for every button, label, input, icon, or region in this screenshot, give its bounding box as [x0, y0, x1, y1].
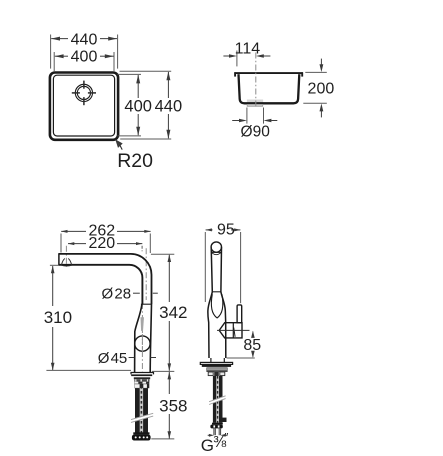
dim ø28: leader dashes	[133, 292, 140, 294]
bowl centerline	[255, 53, 257, 109]
drain crosshair ticks	[72, 81, 96, 106]
dim 114: right arrow (outside, pointing left)	[263, 55, 271, 57]
dome chord line	[211, 251, 221, 253]
block inner chamfer	[234, 328, 235, 337]
rod side break band	[211, 396, 225, 404]
dim ø90: left arrow	[232, 120, 239, 122]
svg-text:Ø45: Ø45	[98, 350, 128, 367]
dim 400 top: dimension line	[55, 55, 68, 57]
body right outline	[150, 304, 151, 372]
dim 262: arrows	[61, 230, 68, 233]
sink outer rim	[50, 73, 118, 140]
sink inner bowl edge	[53, 75, 114, 136]
mounting nut block	[134, 377, 150, 379]
pipe centerline upper	[145, 248, 147, 300]
body inner shading wedge	[141, 317, 145, 331]
valve joint circle	[135, 336, 150, 351]
dim 440 top: arrows	[51, 37, 60, 41]
svg-text:Ø90: Ø90	[241, 123, 271, 140]
side body left edge	[208, 247, 212, 358]
side base plate underside	[202, 365, 231, 367]
dim 310: dimension line	[52, 266, 54, 306]
side body right edge	[221, 247, 226, 358]
dim 95: arrows	[205, 228, 212, 231]
dim ø45: leader dashes	[129, 357, 135, 359]
deck extension line left	[46, 369, 131, 371]
rim left end cap	[234, 72, 236, 76]
dim 220: dimension line	[68, 243, 86, 245]
dome inner arc	[212, 252, 221, 254]
svg-text:114: 114	[235, 41, 261, 58]
bowl body outline	[239, 74, 300, 103]
dim 200: bottom arrow (below, pointing up)	[320, 110, 322, 117]
mounting tabs	[134, 382, 149, 384]
bottom nut side	[210, 425, 222, 429]
rim right end cap	[301, 72, 303, 76]
centerline through circle	[141, 334, 143, 353]
dim ø90: extension lines	[246, 108, 248, 124]
svg-text:440: 440	[155, 98, 183, 116]
svg-text:400: 400	[124, 98, 152, 116]
svg-text:310: 310	[44, 308, 72, 327]
dim 200: top arrow (above, pointing down)	[320, 59, 322, 66]
drain recess grey (above bottom)	[247, 100, 263, 103]
body joint line	[212, 291, 221, 293]
body left flare outline	[135, 304, 142, 372]
dim 220: right extension stub	[141, 246, 143, 251]
dim 400 top: extension lines	[53, 52, 55, 72]
R20 leader line	[120, 145, 122, 149]
rod bottom joint	[133, 432, 149, 434]
pivot block divider	[232, 323, 234, 338]
dim 262: dimension line	[61, 230, 86, 232]
drain recess below bottom	[247, 104, 263, 106]
dim 342: arrows	[168, 254, 172, 262]
dim 114: left extension line	[236, 51, 238, 67]
handle lever	[237, 305, 242, 323]
deck extension line right	[152, 370, 174, 372]
spout left end cap	[58, 253, 60, 265]
dim 400 right: dimension line	[137, 75, 139, 98]
rod break band	[133, 413, 152, 421]
dim 440 right: dimension line	[167, 72, 169, 98]
dim 400 right: arrows	[136, 75, 140, 84]
base plate front	[131, 373, 154, 375]
svg-text:358: 358	[159, 397, 187, 416]
dim 200: top extension line	[305, 71, 327, 73]
dim 85: bottom extension	[227, 357, 255, 359]
base plate underside	[131, 374, 152, 376]
threaded rod side	[213, 376, 223, 423]
rod side bottom joint	[212, 423, 223, 425]
side tabs	[208, 372, 213, 376]
dim 310: top extension	[50, 264, 59, 266]
dim 85: leader line through handle	[217, 329, 250, 331]
svg-text:″: ″	[224, 432, 228, 444]
drain inner circle	[77, 86, 90, 99]
spout inner outline	[59, 265, 142, 304]
svg-text:G: G	[201, 436, 214, 455]
spout aerator centerline	[65, 246, 67, 267]
side base neck	[211, 358, 224, 362]
pipe seam line	[141, 303, 151, 305]
dim 262: right extension	[149, 234, 151, 254]
bottom nut front	[132, 435, 151, 441]
body centerline lower	[141, 303, 143, 372]
dim 85: dash-dot line	[252, 331, 254, 338]
side base plate	[200, 362, 232, 364]
dim 400 top: arrows	[55, 54, 64, 58]
inner bulb outline	[211, 294, 222, 318]
spout outer outline	[59, 254, 152, 304]
rod side center channel	[216, 376, 219, 423]
svg-text:R20: R20	[117, 150, 153, 172]
svg-text:440: 440	[71, 31, 98, 48]
dim 440 right: arrows	[166, 71, 170, 80]
rod center channel	[140, 388, 143, 435]
dim 342: top extension	[151, 253, 174, 255]
G3/8 dim right arrow	[225, 434, 227, 436]
dim 95: right extension	[240, 232, 242, 303]
side tab on rod	[222, 418, 227, 422]
svg-text:Ø28: Ø28	[102, 285, 132, 302]
dim 95: dimension line	[206, 229, 213, 231]
dim 95: left extension	[204, 232, 206, 302]
dim 85: arrows	[251, 331, 255, 338]
dim 220: arrows	[68, 242, 75, 245]
dim 358: bottom extension	[151, 438, 174, 440]
dim 358: arrows	[168, 372, 172, 380]
dim 342: dimension line	[168, 255, 170, 302]
side mounting block	[206, 367, 227, 372]
threaded rod front	[135, 388, 148, 435]
dim 440 top: extension lines	[50, 35, 52, 69]
dim 400 right: extension lines	[118, 73, 142, 75]
dim ø90: right arrow	[271, 120, 277, 122]
dim 262: left extension	[60, 234, 62, 253]
bowl rim line	[234, 72, 303, 74]
svg-text:220: 220	[88, 235, 115, 252]
svg-text:342: 342	[159, 303, 187, 322]
hose legs	[214, 428, 221, 435]
aerator	[61, 259, 72, 267]
svg-text:400: 400	[71, 49, 98, 66]
dim 200: bottom extension line	[303, 102, 327, 104]
svg-text:200: 200	[308, 81, 335, 98]
dim 114: left arrow (outside, pointing right)	[223, 55, 230, 57]
dome cap	[211, 242, 221, 252]
dim 358: dimension line	[168, 372, 170, 394]
G3/8 dim left arrow	[208, 434, 210, 436]
svg-text:95: 95	[217, 221, 235, 238]
svg-text:85: 85	[243, 337, 261, 354]
dim 310: arrows	[51, 266, 55, 274]
handle pivot pentagon	[219, 323, 242, 338]
dim 440 top: dimension line	[51, 38, 68, 40]
drain outer circle	[75, 84, 92, 101]
dim 440 right: extension lines	[120, 70, 172, 72]
R20 leader arrow	[115, 139, 123, 148]
